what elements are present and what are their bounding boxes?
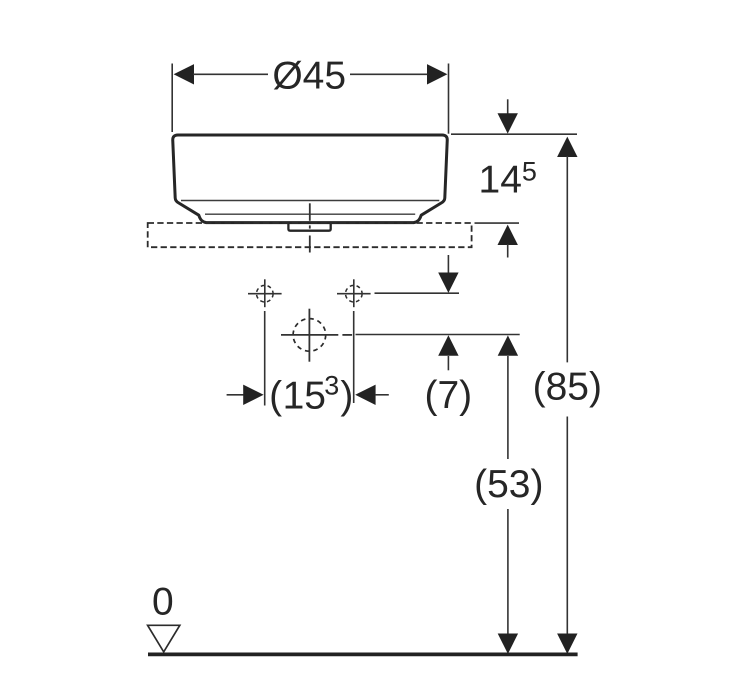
dim Ø45 left arrow [174,64,268,84]
dim 85 line lower [557,417,577,654]
svg-text:Ø45: Ø45 [272,55,346,98]
dim 15.3 left extension line [264,311,266,406]
basin inner rim line upper [181,200,439,202]
dashed counter rectangle [148,223,472,247]
svg-text:(85): (85) [533,365,602,408]
svg-text:(7): (7) [424,374,472,417]
dim 14.5 lower arrow [498,225,518,258]
basin inner rim line lower [205,213,415,215]
dim 14.5 lower reference line [475,222,520,224]
dim 14.5 upper arrow [498,99,518,133]
dim 53 line upper [498,335,518,459]
dim 7 lower arrow [438,335,458,370]
dim 85 line upper [557,137,577,363]
dim Ø45 left extension line [171,64,173,133]
dim 53 line lower [498,509,518,654]
drain circle [281,309,352,362]
dim 15.3 left arrow [227,385,264,405]
datum triangle [148,625,180,652]
fixing hole left [248,279,282,307]
svg-text:0: 0 [152,581,174,624]
svg-text:(53): (53) [474,463,543,506]
dim 15.3 right arrow [355,385,389,405]
dim Ø45 right arrow [350,64,447,84]
drain fitting under basin [288,223,330,231]
drain level reference line [356,334,520,336]
svg-text:(153): (153) [269,370,353,417]
dim Ø45 right extension line [448,64,450,134]
basin vertical center line [309,203,311,252]
dim 7 upper arrow [438,255,458,293]
dim 14.5 top reference line [451,133,577,135]
dim 15.3 right extension line [353,311,355,403]
fixing hole right [337,279,371,307]
floor line [148,653,578,657]
basin outline [173,135,448,223]
fixing hole level reference line [375,292,460,294]
